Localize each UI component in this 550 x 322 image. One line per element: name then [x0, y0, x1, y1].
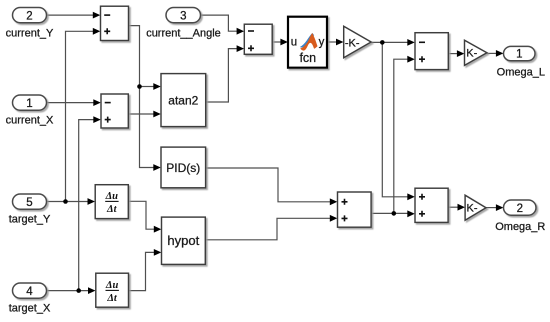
wire Sum1 out to atan2 in1 and down to PID in	[129, 26, 161, 171]
wire Sum5 out to Sum6 plus2 and up to Sum4 plus	[371, 56, 415, 217]
sum S5 speed plus turn	[338, 192, 372, 227]
wire Sum2 out to atan2 in2	[128, 111, 161, 118]
gain G3 K-	[465, 195, 486, 220]
wire current_X port1 to Sum2 minus	[47, 99, 101, 106]
wire Sum4 out to Gain2 in	[448, 50, 464, 57]
wire Sum3 out to fcn in	[272, 39, 288, 46]
gain G2 K-	[465, 40, 487, 65]
svg-text:K-: K-	[466, 48, 477, 60]
block atan2	[161, 74, 206, 127]
svg-text:Omega_R: Omega_R	[495, 221, 545, 233]
svg-text:1: 1	[516, 49, 522, 61]
wire atan2 out to Sum3 plus	[206, 45, 244, 102]
svg-text:K-: K-	[467, 203, 478, 215]
svg-text:-K-: -K-	[345, 38, 360, 50]
sum S2 target_X minus current_X	[101, 94, 128, 128]
svg-text:y: y	[319, 37, 325, 49]
wire Gain2 out to Omega_L port1	[487, 50, 504, 57]
block Derivative2 du/dt	[96, 273, 129, 307]
inport 5 target_Y	[13, 194, 47, 209]
svg-text:current_Y: current_Y	[6, 27, 54, 39]
svg-text:2: 2	[517, 203, 523, 215]
svg-text:u: u	[291, 37, 297, 49]
inport 1 current_X	[13, 95, 47, 110]
inport 4 target_X	[13, 283, 47, 298]
wire fcn out to Gain1 in	[327, 39, 344, 46]
inport 3 current__Angle	[166, 8, 201, 23]
wire Derivative1 out to hypot in1	[128, 201, 161, 232]
MATLAB logo membrane	[300, 33, 318, 51]
svg-text:3: 3	[180, 10, 186, 22]
gain G1 -K-	[344, 26, 371, 58]
junction target_X	[76, 288, 81, 293]
block U1 MATLAB Function fcn	[288, 17, 327, 68]
svg-text:target_X: target_X	[9, 302, 51, 314]
svg-text:hypot: hypot	[167, 233, 199, 248]
inport 2 current_Y	[13, 8, 47, 23]
wire hypot out to Sum5 plus2	[205, 215, 337, 240]
outport 1 Omega_L	[504, 46, 536, 60]
wire target_X port4 to Derivative2 and up to Sum2 plus	[47, 116, 101, 294]
wire Gain3 out to Omega_R port2	[486, 204, 503, 211]
wire target_Y port5 to Derivative1 and up to Sum1 plus	[47, 28, 101, 205]
sum S3 angle error	[244, 24, 272, 54]
svg-text:fcn: fcn	[299, 51, 316, 65]
block PID(s)	[161, 147, 206, 188]
svg-text:target_Y: target_Y	[9, 213, 51, 225]
block Derivative1 du/dt	[95, 185, 128, 219]
outport 2 Omega_R	[504, 200, 537, 215]
svg-text:5: 5	[26, 197, 32, 209]
svg-text:4: 4	[26, 286, 33, 298]
wire current__Angle port3 to Sum3 minus	[201, 15, 245, 35]
junction Sum1 out branch	[137, 84, 142, 89]
svg-text:Δu: Δu	[105, 191, 119, 202]
sum S6 right wheel	[415, 188, 448, 222]
junction Gain1 out	[380, 40, 385, 45]
junction Sum5 out	[392, 211, 397, 216]
svg-text:atan2: atan2	[168, 93, 198, 107]
svg-text:current_X: current_X	[6, 114, 54, 126]
junction target_Y	[63, 199, 68, 204]
sum S1 target_Y minus current_Y	[101, 6, 129, 40]
wire current_Y port2 to Sum1 minus	[47, 12, 101, 19]
wire Derivative2 out to hypot in2	[129, 249, 162, 291]
svg-text:1: 1	[26, 98, 32, 110]
block hypot	[162, 217, 206, 264]
svg-text:Δt: Δt	[106, 204, 118, 215]
wire Sum6 out to Gain3 in	[448, 204, 465, 211]
sum S4 left wheel	[415, 33, 448, 70]
svg-text:current__Angle: current__Angle	[146, 27, 221, 39]
svg-text:Δt: Δt	[106, 293, 118, 304]
wire Gain1 out to Sum4 minus and down to Sum6 plus1	[371, 39, 415, 200]
svg-text:PID(s): PID(s)	[166, 161, 200, 175]
svg-text:Omega_L: Omega_L	[497, 66, 545, 78]
wire PID out to Sum5 plus1	[206, 168, 338, 205]
svg-text:2: 2	[26, 10, 32, 22]
svg-text:Δu: Δu	[105, 280, 119, 291]
